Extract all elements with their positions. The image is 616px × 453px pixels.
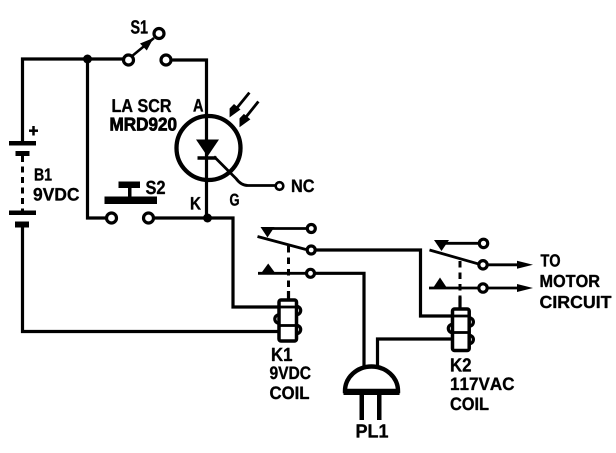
label S2 — [146, 181, 165, 194]
label LA SCR — [113, 99, 172, 112]
label K2 — [451, 358, 471, 371]
label 9VDC (K1 coil) — [270, 366, 311, 379]
wire S2 to K junction and on to K1 coil — [155, 218, 298, 307]
plug PL1 — [344, 367, 400, 421]
battery B1 — [9, 126, 38, 228]
relay K2 coil — [448, 309, 473, 351]
label COIL (K2) — [451, 397, 489, 410]
pushbutton S2 — [105, 182, 158, 224]
label MOTOR — [541, 275, 600, 287]
light arrow 1 — [230, 93, 250, 118]
relay K2 contacts — [429, 239, 488, 309]
label MRD920 — [111, 118, 177, 131]
label G (gate pin) — [230, 194, 239, 206]
relay K1 coil — [275, 300, 301, 341]
label NC — [292, 179, 314, 192]
node junction dot at top wire — [83, 55, 92, 64]
wire arrow to motor (upper) — [488, 261, 533, 269]
label K (cathode pin) — [191, 197, 201, 209]
wire K1 middle contact to K2 coil — [316, 250, 454, 316]
label 9VDC (battery) — [34, 188, 79, 201]
label CIRCUIT — [540, 296, 611, 308]
wire SCR gate to NC terminal — [214, 157, 276, 186]
label B1 — [35, 168, 52, 180]
wire battery top to S1 — [23, 59, 124, 143]
node NC terminal — [276, 182, 284, 190]
label A (anode pin) — [193, 99, 203, 111]
label PL1 — [357, 424, 388, 437]
light arrow 2 — [240, 102, 259, 128]
node K junction dot — [203, 214, 212, 223]
wire arrow to motor (lower) — [489, 284, 534, 292]
label S1 — [131, 20, 148, 33]
wire battery bottom to K1 coil — [23, 227, 281, 332]
wire junction down to S2 — [88, 59, 107, 218]
relay K1 contacts — [258, 225, 316, 302]
label K1 — [272, 348, 292, 361]
switch S1 — [124, 29, 172, 66]
wire K1 bottom contact to PL1 — [315, 273, 365, 372]
label TO — [541, 254, 560, 266]
LA SCR U1 MRD920 body — [177, 116, 241, 180]
wire S1 to SCR anode / cathode vertical — [173, 60, 207, 218]
label 117VAC — [451, 377, 514, 390]
label COIL (K1) — [270, 386, 309, 399]
wire PL1 to K2 coil bottom — [378, 339, 454, 372]
